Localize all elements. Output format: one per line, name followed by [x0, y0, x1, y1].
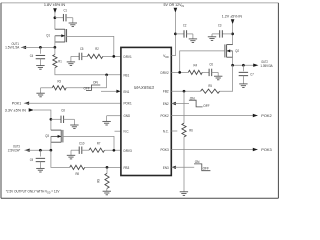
wire Q3 source to OUT3 [50, 136, 52, 150]
svg-text:5V OR 12VIN: 5V OR 12VIN [164, 2, 185, 8]
input arrow 3.3V [29, 108, 34, 111]
svg-text:EN1: EN1 [124, 90, 130, 94]
wire R5 to OUT2 [220, 65, 233, 91]
svg-text:C8: C8 [61, 108, 65, 112]
svg-text:C2: C2 [183, 24, 187, 28]
node junction dot DRV1 [112, 55, 115, 58]
svg-text:ON: ON [93, 80, 98, 84]
output arrow OUT2 [253, 64, 258, 67]
svg-text:*2.5V OUTPUT ONLY WITH VDD = 1: *2.5V OUTPUT ONLY WITH VDD = 12V [6, 190, 60, 195]
node junction dot OUT2/Q2/R5 [231, 64, 234, 67]
wire OUT2 to C7 [242, 65, 244, 71]
capacitor C3 [219, 30, 221, 37]
resistor R6 [182, 123, 186, 137]
svg-text:EN2: EN2 [163, 102, 169, 106]
svg-text:ON: ON [190, 97, 195, 101]
svg-text:2.5V/2A*: 2.5V/2A* [8, 148, 21, 152]
svg-text:1.5V/1.5A: 1.5V/1.5A [5, 46, 20, 50]
wire Q1 gate to DRV1 riser [67, 36, 114, 56]
ground GND pin [106, 116, 108, 122]
capacitor C9 [36, 157, 45, 159]
ground C7 [242, 76, 244, 84]
svg-text:1.05V/3A: 1.05V/3A [260, 64, 273, 68]
transistor Q3 [60, 130, 62, 143]
capacitor C8 [60, 116, 62, 123]
wire 3.3V to C8 [51, 118, 61, 120]
svg-text:1.8V ±5% IN: 1.8V ±5% IN [44, 2, 65, 7]
svg-text:OFF: OFF [203, 104, 210, 108]
output arrow POK3 [253, 148, 258, 151]
wire OUT3 down to R8 [51, 150, 70, 167]
wire OUT2 [233, 64, 254, 66]
switch EN3 ON/OFF [194, 164, 210, 171]
capacitor C6 [208, 69, 210, 76]
node junction dot 3.3V/C8 [50, 118, 53, 121]
ground R6 [180, 191, 188, 193]
node junction dot OUT1/Q1/R1 [54, 46, 57, 49]
svg-text:FB2: FB2 [163, 90, 169, 94]
wire 1.8V to C1 [55, 17, 64, 19]
node junction dot OUT3/Q3/R8 [50, 149, 53, 152]
wire EN3 [172, 166, 195, 168]
ground C1 [72, 18, 74, 23]
svg-text:DRV1: DRV1 [124, 55, 132, 59]
svg-text:POK2: POK2 [161, 114, 169, 118]
wire R1 to FB1 [55, 68, 121, 75]
svg-text:R5: R5 [208, 84, 212, 88]
wire POK1 [24, 102, 121, 104]
wire R8 to FB3 [85, 166, 121, 168]
wire POK2 [171, 115, 253, 117]
resistor R3 [52, 86, 66, 90]
wire R2 to DRV1 [103, 55, 121, 57]
ground C4 [39, 59, 41, 66]
resistor R4 [188, 70, 202, 74]
svg-text:R3: R3 [57, 79, 61, 83]
wire FB1 node down to R3 [106, 75, 108, 88]
svg-text:POK1: POK1 [124, 102, 132, 106]
wire Q1 source to OUT1 [54, 36, 56, 48]
wire EN2 [172, 103, 189, 105]
svg-text:POK3: POK3 [161, 148, 169, 152]
wire C1 to ground [66, 17, 73, 19]
output arrow POK1 [24, 102, 29, 105]
wire C3 to ground [212, 33, 220, 35]
svg-text:C4: C4 [30, 54, 34, 58]
wire 1.8V rail down to Q1 drain [54, 13, 56, 30]
svg-text:OFF: OFF [203, 166, 210, 170]
capacitor C4 [36, 54, 45, 56]
svg-text:POK3: POK3 [261, 148, 271, 152]
resistor R2 [87, 54, 102, 58]
wire DRV2 pin [171, 71, 188, 73]
node junction dot 1.8V/C1 [54, 16, 57, 19]
svg-text:C10: C10 [79, 142, 84, 146]
svg-text:N.C.: N.C. [124, 130, 130, 134]
wire 3.3V to Q3 drain [34, 110, 51, 130]
svg-text:POK2: POK2 [261, 114, 271, 118]
wire ground to C10 [71, 149, 79, 151]
svg-text:DRV3: DRV3 [124, 149, 132, 153]
capacitor C7 [239, 71, 248, 73]
svg-text:R7: R7 [97, 142, 101, 146]
resistor R1 [54, 47, 56, 54]
svg-text:R8: R8 [75, 172, 79, 176]
svg-text:3.3V ±5% IN: 3.3V ±5% IN [5, 108, 26, 112]
wire Q3 gate to DRV3 riser [63, 136, 114, 150]
arrow into EN2 pin [172, 102, 176, 105]
wire C8 to ground [64, 118, 75, 120]
svg-text:POK1: POK1 [12, 101, 21, 105]
wire R3 right [66, 87, 106, 89]
svg-text:R2: R2 [95, 47, 99, 51]
border frame [1, 2, 278, 4]
capacitor C10 [78, 147, 80, 154]
wire GND pin [107, 115, 121, 117]
svg-text:GND: GND [124, 114, 131, 118]
op-amp U1 MAX8563 box [121, 47, 171, 175]
node junction dot FB1/R3 [105, 73, 108, 76]
svg-text:R6: R6 [189, 128, 193, 132]
switch EN2 ON/OFF [189, 100, 203, 107]
svg-text:R4: R4 [194, 63, 198, 67]
svg-text:N.C.: N.C. [163, 130, 169, 134]
ground C6 [217, 72, 219, 76]
wire C2 to ground [187, 33, 193, 35]
transistor Q2 [226, 44, 228, 57]
output arrow POK2 [253, 114, 258, 117]
wire R4 to C6 [202, 71, 209, 73]
ground C2 [192, 34, 194, 39]
switch EN1 ON/OFF [86, 90, 92, 92]
svg-text:C9: C9 [30, 158, 34, 162]
capacitor C1 [62, 14, 64, 21]
wire R6 to ground [183, 137, 185, 192]
wire EN1 [101, 90, 117, 92]
wire Q2 gate to DRV2 riser [180, 51, 225, 73]
wire N.C. left stub [115, 130, 121, 132]
svg-text:C5: C5 [80, 47, 84, 51]
svg-text:C1: C1 [63, 8, 67, 12]
node junction dot OUT1/C4 [39, 46, 42, 49]
svg-text:Q1: Q1 [46, 33, 50, 37]
ground C10 [70, 150, 72, 155]
resistor R5 [201, 89, 220, 93]
input arrow 1.2V [231, 19, 235, 24]
ground C9 [39, 162, 41, 169]
wire FB2 down to R6 [183, 91, 185, 123]
ground C8 [73, 119, 75, 125]
svg-text:DRV2: DRV2 [161, 71, 169, 75]
input arrow 1.8V [53, 8, 57, 13]
resistor R7 [89, 148, 105, 152]
wire C6 to ground [212, 71, 219, 73]
wire Q2 source to OUT2 [232, 51, 234, 65]
wire R7 to DRV3 [105, 149, 121, 151]
wire ground to C5 [71, 55, 79, 57]
capacitor C2 [183, 30, 185, 37]
node junction dot DRV2 [178, 71, 181, 74]
svg-text:1.2V ±5% IN: 1.2V ±5% IN [222, 15, 243, 19]
svg-text:R9: R9 [96, 179, 100, 183]
node junction dot DRV3 [113, 149, 116, 152]
svg-text:EN3: EN3 [163, 166, 169, 170]
ground R3 [40, 88, 42, 93]
svg-text:FB1: FB1 [124, 73, 130, 77]
svg-text:Q2: Q2 [235, 49, 239, 53]
wire 1.2V rail to Q2 drain [232, 24, 234, 45]
arrow into EN1 pin [116, 90, 120, 93]
node junction dot OUT2/C7 [242, 64, 245, 67]
svg-text:C3: C3 [218, 24, 222, 28]
node junction dot OUT3/C9 [39, 149, 42, 152]
node junction dot FB2/R6 [183, 90, 186, 93]
svg-text:MAX8563: MAX8563 [134, 85, 155, 90]
svg-text:R1: R1 [58, 60, 62, 64]
wire 1.2V to C3 [222, 33, 232, 35]
ground R9 [106, 188, 108, 191]
wire OUT1 to C4 [39, 47, 41, 53]
wire C10 to R7 [82, 149, 89, 151]
node junction dot FB3/R9 [106, 166, 109, 169]
svg-text:C6: C6 [209, 63, 213, 67]
wire OUT3 [25, 149, 51, 151]
wire VDD rail [171, 12, 175, 55]
transistor Q1 [64, 29, 66, 42]
ground C3 [211, 34, 213, 37]
svg-text:ON: ON [195, 160, 200, 164]
wire FB2 pin [171, 90, 200, 92]
input arrow 5V [174, 8, 178, 13]
svg-text:OFF: OFF [84, 87, 91, 91]
svg-text:FB3: FB3 [124, 166, 130, 170]
wire N.C. right stub [171, 130, 177, 132]
resistor R9 [106, 167, 108, 173]
wire VDD to C2 [175, 33, 184, 35]
node junction dot VDD/C2 [174, 33, 177, 36]
output arrow OUT3 [25, 149, 30, 152]
capacitor C5 [78, 53, 80, 60]
svg-text:C7: C7 [250, 73, 254, 77]
wire C5 to R2 [82, 55, 88, 57]
svg-text:Q3: Q3 [45, 134, 49, 138]
wire POK3 [171, 149, 253, 151]
resistor R8 [70, 165, 85, 169]
wire OUT1 [21, 46, 55, 48]
ground C5 [70, 56, 72, 62]
node junction dot 1.2V/C3 [231, 33, 234, 36]
wire OUT3 to C9 [39, 150, 41, 156]
wire R3 to ground [41, 87, 53, 89]
arrow into EN3 pin [172, 166, 176, 169]
output arrow OUT1 [21, 46, 26, 49]
